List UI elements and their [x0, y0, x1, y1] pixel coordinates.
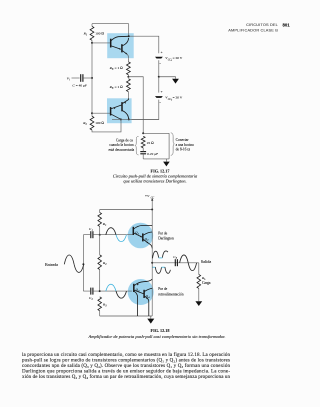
node load branch top — [142, 132, 144, 134]
resistor R2 100 ohm — [91, 113, 93, 116]
capacitor C1 — [90, 231, 92, 238]
node R1 C1 junction — [99, 234, 101, 236]
wire VCC2 to bottom Darlington collectors — [132, 100, 159, 120]
capacitor C2 — [90, 288, 92, 295]
svg-text:Darlington: Darlington — [158, 236, 174, 240]
ground supply midpoint — [172, 79, 179, 84]
svg-text:100 Ω: 100 Ω — [95, 31, 104, 35]
svg-text:retroalimentación: retroalimentación — [158, 292, 184, 296]
wire load rectangle top — [143, 132, 169, 134]
svg-text:1: 1 — [138, 233, 139, 235]
svg-text:+: + — [161, 51, 163, 55]
resistor R1 100 ohm — [91, 24, 93, 27]
wire left rail down to bottom base node — [91, 78, 93, 113]
transistor Q3 (pnp driver) — [133, 284, 135, 292]
transistor Q bottom-Darlington output (pnp) — [121, 102, 123, 111]
ground RL — [195, 301, 202, 306]
svg-text:Carga de ca: Carga de ca — [116, 138, 133, 142]
svg-text:FIG. 12.18: FIG. 12.18 — [151, 328, 170, 333]
transistor Q bottom-Darlington input (pnp) — [92, 112, 110, 114]
wire input left rail — [82, 235, 84, 291]
svg-text:= 1 Ω: = 1 Ω — [115, 66, 123, 70]
svg-text:Conectar: Conectar — [176, 138, 190, 142]
svg-text:que utiliza transistores Darli: que utiliza transistores Darlington. — [123, 179, 186, 184]
wire midpoint to ground — [159, 77, 176, 79]
resistor R3 bias — [98, 297, 102, 311]
transistor Q4 (npn output) — [143, 290, 145, 298]
wire output to load — [152, 262, 199, 264]
wire load rectangle bottom — [143, 158, 169, 160]
wire base Q1 — [100, 234, 133, 236]
svg-text:de 8-16 Ω: de 8-16 Ω — [176, 148, 191, 152]
svg-text:xión de los transistores Q₂ y: xión de los transistores Q₂ y Q₄ forma u… — [22, 375, 231, 380]
svg-text:−: − — [159, 62, 161, 66]
svg-text:Amplificador de potencia push-: Amplificador de potencia push-pull casi … — [88, 334, 226, 339]
svg-text:Carga: Carga — [202, 281, 211, 285]
svg-text:801: 801 — [283, 22, 291, 27]
wire collector node to VCC1 rail — [129, 36, 159, 53]
wire Q3 collector to bottom rail — [134, 291, 137, 316]
transistor Q1 (npn driver) — [132, 227, 134, 235]
wire left rail down to input node — [91, 43, 93, 78]
wire load rectangle right — [168, 133, 170, 159]
node collector Q3 bottom — [120, 118, 122, 120]
svg-text:0.22 μF: 0.22 μF — [147, 152, 158, 156]
svg-text:100 Ω: 100 Ω — [95, 121, 104, 125]
capacitor C 40uF input coupling — [80, 74, 82, 82]
node input junction — [82, 263, 84, 265]
wire R2 bottom to negative rail of bottom Darlington — [92, 119, 121, 131]
svg-text:Salida: Salida — [201, 259, 212, 264]
highlight box around bottom Darlington pair — [107, 98, 132, 123]
wire bottom rail fig2 — [100, 315, 153, 317]
svg-text:cuando la bocina: cuando la bocina — [109, 143, 134, 147]
wire center rail — [151, 210, 153, 317]
svg-text:Par de: Par de — [158, 232, 167, 236]
node collector Q4 bottom — [128, 118, 130, 120]
svg-text:concordantes npn de salida (Q₃: concordantes npn de salida (Q₃ y Q₄). Ob… — [22, 364, 231, 369]
capacitor 0.22uF AC load — [140, 151, 146, 153]
waveform after C2 (pos cyan, neg black) — [106, 284, 116, 291]
wire center tap to load branch — [128, 77, 143, 134]
highlight box around top Darlington pair — [107, 33, 134, 58]
resistor RE1 1 ohm — [127, 58, 129, 62]
node base of top Darlington — [91, 42, 93, 44]
resistor R1 bias — [99, 210, 101, 213]
svg-text:+: + — [161, 90, 163, 94]
svg-text:−: − — [159, 101, 161, 105]
transistor Q top-Darlington output (npn) — [121, 44, 123, 52]
highlight circle feedback pair Q3 Q4 — [128, 279, 154, 305]
transistor Q top-Darlington input (npn) — [92, 42, 110, 44]
ground bottom rail — [150, 316, 152, 319]
highlight circle Darlington pair Q1 Q2 — [128, 223, 154, 249]
waveform upper half-cycles at output stage — [153, 251, 159, 258]
svg-text:está desconectada: está desconectada — [109, 148, 135, 152]
wire bottom Darlington collector rail — [112, 118, 159, 120]
wire top rail — [92, 23, 129, 25]
svg-text:la proporciona un circuito cas: la proporciona un circuito casi compleme… — [22, 353, 231, 358]
svg-text:22 Ω: 22 Ω — [147, 141, 154, 145]
svg-text:push-pull se logra por medio d: push-pull se logra por medio de transist… — [22, 359, 230, 364]
node input coupling — [91, 77, 93, 79]
wire top rail fig2 — [100, 209, 153, 211]
waveform lower half-cycles at output stage — [153, 266, 156, 268]
svg-text:= 20 V: = 20 V — [173, 96, 183, 100]
svg-text:a una bocina: a una bocina — [176, 143, 195, 147]
node R2 C2 junction — [99, 290, 101, 292]
resistor R2 bias — [99, 235, 101, 255]
node output junction on center rail — [151, 262, 153, 264]
node top rail / VCC — [151, 209, 153, 211]
svg-text:E: E — [111, 87, 114, 90]
waveform after C1 (pos black, neg cyan) — [106, 228, 116, 235]
node supply midpoint — [158, 76, 160, 78]
brace speaker annotation — [171, 133, 175, 156]
svg-text:AMPLIFICADOR CLASE B: AMPLIFICADOR CLASE B — [228, 27, 278, 32]
resistor 22 ohm AC load — [141, 136, 145, 148]
wire base Q3 — [100, 290, 132, 292]
ground load branch — [165, 159, 167, 162]
svg-text:Par de: Par de — [158, 287, 167, 291]
waveform output sine — [180, 255, 189, 263]
svg-text:Darlington que proporciona sal: Darlington que proporciona salida a trav… — [22, 370, 230, 375]
capacitor C3 output coupling — [174, 259, 176, 266]
node collectors of top Darlington — [128, 35, 130, 37]
wire supply drop from top rail to collector node — [128, 24, 130, 37]
resistor RE2 1 ohm — [127, 79, 131, 92]
svg-text:= 20 V: = 20 V — [173, 56, 183, 60]
node base of bottom Darlington — [91, 112, 93, 114]
brace AC-load annotation — [135, 136, 139, 155]
svg-text:= 1 Ω: = 1 Ω — [115, 85, 123, 89]
svg-text:Entrada: Entrada — [45, 262, 58, 267]
wire VCC1 to mid node — [158, 60, 160, 77]
svg-text:= 40 μF: = 40 μF — [76, 84, 87, 88]
wire midpoint to VCC2 — [158, 77, 160, 93]
svg-text:E: E — [111, 68, 114, 71]
transistor Q2 (npn output) — [142, 233, 144, 241]
svg-text:1: 1 — [171, 60, 172, 62]
resistor RL load — [198, 263, 200, 275]
node output center tap — [127, 76, 129, 78]
